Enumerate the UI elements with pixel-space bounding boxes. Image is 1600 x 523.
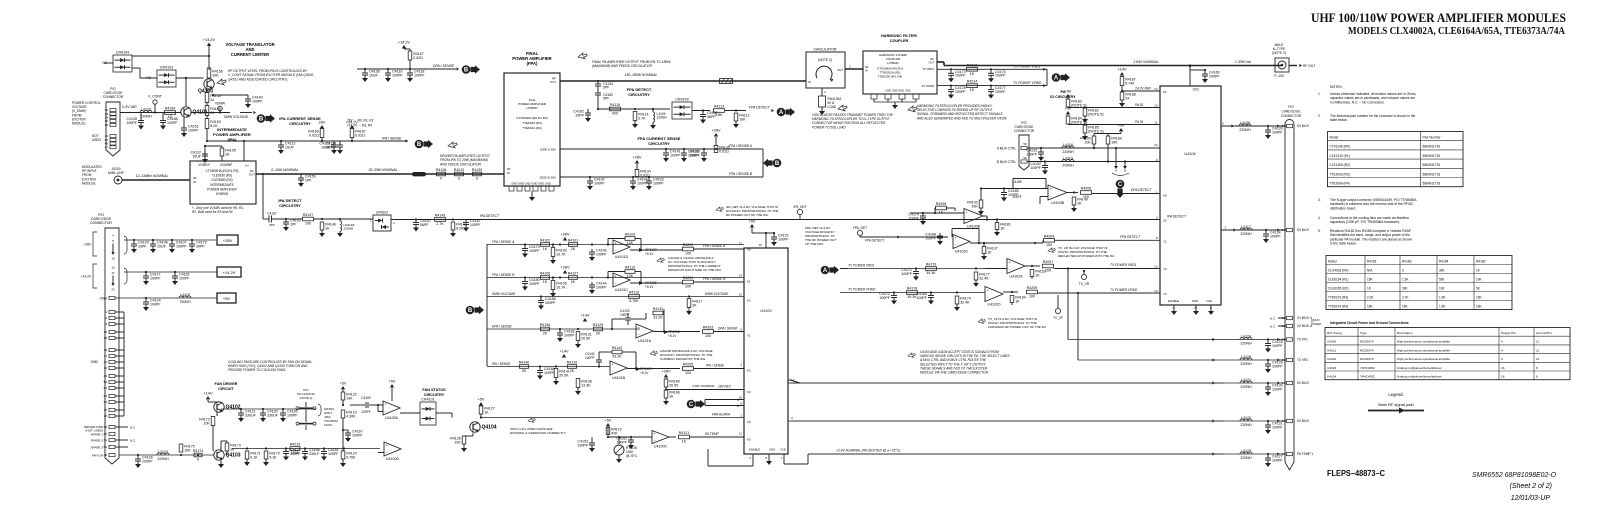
pin 53 X2 MUX	[1282, 324, 1310, 328]
resistor R4113	[714, 105, 725, 118]
inductor L4123	[157, 450, 169, 461]
svg-text:R4154: R4154	[165, 107, 176, 111]
capacitor C4121	[238, 409, 257, 418]
svg-text:GND: GND	[1192, 299, 1198, 303]
RF feedthrough W	[720, 79, 733, 84]
svg-text:VDMW: VDMW	[215, 102, 225, 106]
resistor R4203	[703, 326, 714, 339]
capacitor C4102	[573, 109, 591, 118]
svg-text:0: 0	[440, 177, 442, 181]
op-amp U4102A	[1007, 259, 1025, 279]
svg-text:220NH: 220NH	[1240, 385, 1252, 389]
svg-text:R4130: R4130	[472, 168, 483, 172]
wire row2 fb	[607, 272, 642, 285]
resistor R4189	[1106, 136, 1122, 144]
U4100 pin 1	[740, 414, 742, 418]
wire fan alarm row	[482, 417, 744, 419]
svg-text:2.7K: 2.7K	[1402, 295, 1409, 299]
svg-text:16K: 16K	[1402, 304, 1409, 308]
svg-text:2K: 2K	[570, 369, 575, 373]
svg-text:+14V: +14V	[1118, 68, 1127, 72]
capacitor C4151	[181, 124, 199, 133]
svg-text:390: 390	[1439, 268, 1445, 272]
svg-text:10UF: 10UF	[285, 145, 295, 149]
svg-text:3.88V NOMINAL: 3.88V NOMINAL	[692, 384, 715, 388]
capacitor C4186	[302, 448, 320, 457]
wire vrd1 to u4104	[1054, 263, 1160, 269]
svg-text:Description: Description	[1397, 331, 1413, 335]
wire row4 to pin	[714, 327, 744, 332]
ground	[948, 78, 954, 82]
svg-text:(NOTE 2): (NOTE 2)	[818, 58, 832, 62]
svg-text:capacitors (1000 pF, P/O TRN50: capacitors (1000 pF, P/O TRN5066A hardwa…	[1330, 220, 1400, 224]
capacitor C4107	[169, 240, 187, 249]
svg-text:TX POWER VFWD: TX POWER VFWD	[1110, 288, 1138, 292]
svg-text:0.02Ω: 0.02Ω	[309, 133, 319, 137]
svg-text:R4136: R4136	[540, 323, 551, 327]
svg-text:10K: 10K	[454, 440, 461, 444]
pin 37 PA TEMP 1	[1282, 452, 1314, 456]
wire q4102 vert	[208, 400, 219, 403]
svg-text:56PF: 56PF	[420, 223, 429, 227]
svg-text:TTE2063 (R3): TTE2063 (R3)	[1330, 172, 1350, 176]
pin 75 lower connector	[104, 408, 115, 412]
svg-text:TX POWER VFWD: TX POWER VFWD	[848, 288, 876, 292]
svg-text:100PF: 100PF	[916, 296, 927, 300]
capacitor C4167	[345, 430, 363, 439]
svg-text:U4104: U4104	[1184, 152, 1195, 156]
svg-text:CLE/5080 (R4): CLE/5080 (R4)	[211, 178, 232, 182]
wire CR4104 in	[104, 62, 113, 64]
svg-text:220NH: 220NH	[1062, 164, 1074, 168]
svg-text:CR4100: CR4100	[675, 98, 688, 102]
svg-text:100PF: 100PF	[585, 356, 594, 360]
label FPA I SENSE B row2	[492, 273, 515, 277]
wire CR4104 out	[132, 55, 210, 57]
svg-text:+28V: +28V	[662, 370, 671, 374]
svg-text:K0: K0	[1163, 194, 1167, 198]
power +14V	[1118, 68, 1127, 76]
svg-text:CIRCUITRY: CIRCUITRY	[289, 121, 311, 126]
svg-text:U4103: U4103	[1327, 366, 1336, 370]
resistor R4176	[926, 263, 937, 276]
note U4101D and U4101C produce	[668, 256, 722, 272]
svg-text:R4219: R4219	[290, 443, 301, 447]
wire dpa sense feed	[357, 49, 456, 70]
svg-text:R4200: R4200	[683, 243, 694, 247]
note U4103 and U4104 accept	[919, 350, 1010, 375]
wire IPA detect long wire	[391, 218, 1160, 220]
capacitor C4181	[321, 448, 339, 457]
resistor R4187	[350, 129, 366, 138]
resistor R4158	[205, 106, 221, 116]
node V_CONT	[148, 95, 162, 114]
svg-text:24: 24	[1125, 96, 1129, 100]
svg-text:A: A	[779, 110, 784, 116]
capacitor C4182	[557, 329, 575, 338]
capacitor C4100	[700, 111, 718, 120]
note U4101B produces	[660, 349, 714, 361]
wire side B rail	[560, 164, 763, 178]
ground	[575, 391, 581, 395]
label FPA DETECT arrow	[749, 106, 774, 113]
ground	[589, 257, 595, 261]
wire sense bracket	[762, 149, 764, 177]
capacitor C4153	[577, 440, 595, 449]
svg-text:25: 25	[104, 330, 108, 334]
resistor R4105	[551, 281, 567, 290]
svg-text:100PF: 100PF	[1008, 193, 1019, 197]
ground	[681, 158, 687, 162]
svg-text:100PF: 100PF	[529, 249, 540, 253]
wire row3 start	[487, 295, 744, 297]
ground	[550, 293, 556, 297]
wire r4190	[1093, 134, 1095, 149]
inductor L4118	[1062, 143, 1074, 154]
svg-text:DPA I SENSE: DPA I SENSE	[433, 64, 455, 68]
ground	[978, 211, 984, 215]
svg-text:C: C	[1118, 182, 1123, 188]
svg-text:CIRCUITRY: CIRCUITRY	[424, 393, 445, 397]
svg-text:TLE9190 (R3): TLE9190 (R3)	[212, 174, 232, 178]
svg-text:(NOTE 5): (NOTE 5)	[1088, 112, 1103, 116]
resistor R4213	[967, 63, 978, 76]
U4104 pin 15	[1154, 103, 1158, 107]
svg-text:100PF: 100PF	[1272, 344, 1283, 348]
note circulator passes transmit power	[812, 113, 894, 129]
ground	[238, 418, 244, 422]
ground	[1265, 135, 1271, 139]
resistor R4155	[205, 93, 221, 103]
svg-text:in millihenries. N.C. – No Con: in millihenries. N.C. – No Connection.	[1330, 100, 1385, 104]
svg-text:TTE6324 (R4): TTE6324 (R4)	[522, 126, 542, 130]
label TX POWER VRD1 left	[848, 264, 875, 268]
svg-text:K0: K0	[747, 420, 751, 424]
connector male N-type RF OUT	[1272, 43, 1315, 78]
svg-text:MINI–UHF: MINI–UHF	[108, 171, 124, 175]
svg-text:10.7K: 10.7K	[556, 252, 566, 256]
svg-text:R4106: R4106	[540, 272, 551, 276]
wire enable loop	[708, 449, 753, 466]
svg-text:UHF 100/110W POWER AMPLIFIER M: UHF 100/110W POWER AMPLIFIER MODULES	[1311, 11, 1566, 25]
svg-text:12–13dBm NOMINAL: 12–13dBm NOMINAL	[136, 174, 169, 178]
wire row L4128	[1078, 358, 1286, 361]
svg-text:PA ID: PA ID	[1135, 120, 1144, 124]
pin 52 X1 MUX	[1282, 316, 1310, 320]
svg-text:16: 16	[111, 266, 115, 270]
resistor R4136	[540, 323, 551, 336]
svg-text:1K: 1K	[939, 211, 944, 215]
wire vrd1 in	[985, 268, 1007, 270]
svg-text:1K: 1K	[230, 447, 235, 451]
svg-text:100PF: 100PF	[778, 237, 789, 241]
svg-text:28V RET: 28V RET	[717, 385, 732, 389]
wire spare3 stub	[115, 446, 128, 448]
svg-text:X2 MUX: X2 MUX	[1297, 324, 1310, 328]
wire row L4125	[808, 452, 1286, 455]
svg-text:B: B	[737, 404, 739, 408]
resistor R4180	[664, 379, 680, 387]
svg-text:23: 23	[111, 287, 115, 291]
svg-text:R4147: R4147	[303, 213, 314, 217]
svg-text:MC33074: MC33074	[1360, 340, 1374, 344]
svg-text:B: B	[464, 68, 469, 74]
resistor R4206	[1081, 187, 1092, 200]
coupler ground teeth	[871, 94, 919, 105]
svg-text:100PF: 100PF	[925, 236, 936, 240]
svg-text:+: +	[612, 363, 614, 367]
inductor LR4104	[340, 219, 355, 233]
label +14.2V left	[81, 275, 92, 279]
svg-text:ENABLE: ENABLE	[1168, 299, 1179, 303]
svg-text:74HC4052: 74HC4052	[1360, 375, 1375, 379]
svg-text:100PF: 100PF	[290, 452, 301, 456]
note pointer	[577, 52, 588, 61]
svg-text:100PF: 100PF	[596, 285, 607, 289]
wire q4102 base	[213, 412, 217, 431]
svg-text:U4100B: U4100B	[967, 225, 981, 229]
svg-text:ID CIRCUITRY: ID CIRCUITRY	[1050, 95, 1076, 99]
svg-text:33.2K: 33.2K	[653, 316, 663, 320]
resistor R4170	[264, 451, 280, 459]
svg-text:+: +	[1050, 187, 1052, 191]
section title IPA detect	[278, 198, 302, 208]
svg-text:FPA DETECT: FPA DETECT	[865, 239, 884, 243]
svg-text:REFLECTED RF POWER INTO THE PA: REFLECTED RF POWER INTO THE PA.	[1058, 254, 1115, 258]
ground	[557, 338, 563, 342]
svg-text:A: A	[1115, 169, 1117, 173]
footer drawing number FLEPS-48873-C	[1327, 469, 1385, 478]
svg-text:+28V: +28V	[561, 233, 570, 237]
ground	[891, 301, 897, 305]
svg-text:100PF: 100PF	[287, 413, 298, 417]
svg-text:+5V: +5V	[605, 419, 612, 423]
resistor R4123	[341, 410, 357, 418]
ground	[988, 78, 994, 82]
svg-text:RF: RF	[931, 57, 935, 61]
wire dpa det to U4104	[1092, 193, 1160, 195]
capacitor C4114	[325, 141, 343, 150]
power +14.2V	[398, 41, 411, 49]
capacitor C4131	[1265, 421, 1283, 430]
wire row4 start	[487, 328, 640, 330]
svg-text:High performance operational a: High performance operational amplifier	[1397, 340, 1450, 344]
power +5V	[605, 419, 612, 427]
U4100 pin 9	[740, 402, 742, 406]
wire row4 out	[653, 330, 700, 332]
svg-text:High performance operational a: High performance operational amplifier	[1397, 348, 1450, 352]
svg-text:+: +	[987, 288, 989, 292]
capacitor C4164	[916, 292, 934, 301]
svg-text:Legend:: Legend:	[1388, 392, 1403, 397]
svg-text:B: B	[259, 117, 264, 123]
svg-text:100PF: 100PF	[414, 73, 425, 77]
svg-text:Q4103: Q4103	[226, 453, 241, 459]
power +28V	[561, 233, 570, 241]
wire q4103 collector row	[220, 441, 222, 450]
wire r4177 gnd	[975, 280, 977, 283]
wire r4187 feed	[351, 128, 353, 141]
resistor R4167	[408, 51, 424, 60]
svg-text:5PF: 5PF	[603, 86, 609, 90]
svg-text:16: 16	[1501, 366, 1505, 370]
ground	[337, 150, 343, 154]
node B	[257, 114, 275, 123]
section title fan driver	[215, 382, 238, 391]
wire A mux row	[1027, 147, 1160, 149]
wire fpa det row	[860, 235, 948, 238]
resistor R4139	[567, 361, 578, 374]
svg-text:C: C	[689, 402, 694, 408]
svg-text:table below.: table below.	[1330, 118, 1347, 122]
resistor R4127	[479, 406, 495, 414]
fan sense resistors right	[0, 0, 1, 1]
svg-text:0.02Ω: 0.02Ω	[413, 56, 423, 60]
inductor L4120	[1240, 416, 1252, 427]
ground	[994, 232, 1000, 236]
label 14.2V REF	[1135, 87, 1152, 91]
svg-text:CTX5060A (R0,R1,R2): CTX5060A (R0,R1,R2)	[516, 116, 547, 120]
svg-text:R4101: R4101	[568, 239, 579, 243]
svg-text:39PF: 39PF	[196, 244, 205, 248]
svg-text:L4120: L4120	[141, 107, 151, 111]
resistor R4190	[1080, 136, 1096, 144]
svg-text:1K: 1K	[970, 72, 975, 76]
svg-text:RF POWER OUT OF THE IPA.: RF POWER OUT OF THE IPA.	[726, 213, 769, 217]
ground	[362, 78, 368, 82]
svg-text:U4100: U4100	[1327, 340, 1336, 344]
svg-text:L4121: L4121	[1241, 378, 1251, 382]
svg-text:100PF: 100PF	[361, 410, 370, 414]
wire q4104 emitter	[472, 433, 474, 437]
wire chain	[206, 102, 208, 106]
svg-text:+: +	[966, 210, 968, 214]
svg-text:−: −	[615, 249, 617, 253]
svg-text:PA TEMP: PA TEMP	[705, 432, 720, 436]
svg-text:TX VR1: TX VR1	[1297, 358, 1308, 362]
wire B mux row	[1027, 160, 1160, 162]
ground	[131, 249, 137, 253]
inductor L4119	[1062, 156, 1074, 167]
resistor R4147	[303, 213, 314, 226]
U4104 pin 1	[1156, 190, 1158, 194]
svg-text:100PF: 100PF	[577, 443, 588, 447]
pin 26 lower connector	[104, 336, 115, 340]
pin 45	[105, 138, 116, 142]
wire C4112 lead	[204, 145, 222, 161]
wire row L4124	[1068, 338, 1286, 341]
svg-text:12: 12	[1154, 264, 1158, 268]
svg-text:5884911T30: 5884911T30	[1423, 163, 1441, 167]
svg-text:K3: K3	[747, 438, 751, 442]
wire det row	[597, 108, 670, 110]
pin 49 lower connector	[104, 374, 115, 378]
svg-text:CLE6165 (R2): CLE6165 (R2)	[1328, 286, 1348, 290]
svg-text:R4206: R4206	[1081, 187, 1092, 191]
ground	[1202, 79, 1208, 83]
svg-text:10K: 10K	[1476, 277, 1483, 281]
svg-text:50: 50	[104, 380, 108, 384]
svg-text:30–35W NOMINAL: 30–35W NOMINAL	[368, 168, 397, 172]
svg-text:+14V: +14V	[581, 314, 590, 318]
capacitor C4188	[160, 113, 178, 126]
ground	[135, 464, 141, 468]
note 5	[1318, 229, 1412, 246]
wire chain2	[206, 115, 208, 119]
svg-text:B MUX CTRL: B MUX CTRL	[997, 160, 1017, 164]
ground	[1265, 463, 1271, 467]
svg-text:PA TEMP 1: PA TEMP 1	[1297, 452, 1313, 456]
wire vrd1 drop	[1067, 267, 1069, 339]
thermistor RT4100	[614, 437, 638, 459]
pin 32	[105, 108, 116, 112]
svg-text:+14.2V: +14.2V	[203, 38, 216, 42]
wire r4126 gnd	[464, 436, 473, 448]
ground	[1038, 157, 1044, 161]
pin 41 lower connector	[104, 354, 115, 358]
svg-text:100PF: 100PF	[596, 252, 607, 256]
node C	[687, 400, 705, 409]
svg-text:CURRENT DRAWN BY THE IPA.: CURRENT DRAWN BY THE IPA.	[660, 357, 706, 361]
svg-text:FPA I SENSE A: FPA I SENSE A	[492, 240, 514, 244]
svg-text:220NH: 220NH	[1240, 362, 1252, 366]
section title PA ID circuitry	[1050, 90, 1076, 99]
ground	[1193, 311, 1199, 315]
wire temp row	[608, 436, 652, 438]
capacitor C4140	[245, 95, 263, 104]
svg-text:2K: 2K	[543, 332, 548, 336]
svg-text:2K: 2K	[522, 369, 527, 373]
svg-text:CARD EDGE: CARD EDGE	[1282, 110, 1301, 114]
capacitor C4142	[587, 177, 605, 186]
note cooling fans controlled	[228, 360, 313, 372]
wire r4122 link	[342, 390, 344, 406]
svg-text:+28V: +28V	[223, 238, 233, 243]
svg-text:1K: 1K	[1015, 299, 1020, 303]
transistor Q4101	[181, 107, 208, 117]
svg-text:13.3K: 13.3K	[581, 383, 591, 387]
svg-text:100: 100	[705, 334, 711, 338]
resistor R4007	[1043, 260, 1054, 273]
node A	[821, 266, 839, 275]
capacitor C4110	[689, 149, 707, 158]
svg-text:TX POWER VRD1: TX POWER VRD1	[1110, 263, 1137, 267]
node TX_VF	[1012, 295, 1063, 320]
ground	[181, 133, 187, 137]
svg-text:11: 11	[1154, 120, 1157, 124]
wire r4117 gnd	[688, 295, 690, 311]
svg-text:100PF: 100PF	[616, 440, 627, 444]
svg-text:220NH: 220NH	[1240, 342, 1252, 346]
ground	[1042, 171, 1048, 175]
label +2.4V nominal	[836, 449, 900, 453]
svg-text:SIDE A 28V: SIDE A 28V	[540, 148, 557, 152]
resistor R4186	[664, 390, 680, 398]
pin 2 lower connector	[105, 316, 115, 320]
ground	[345, 438, 351, 442]
pin 1 lower connector	[105, 310, 115, 314]
svg-text:CONNECTOR: CONNECTOR	[90, 221, 112, 225]
svg-text:1K: 1K	[484, 410, 489, 414]
svg-text:100PF: 100PF	[955, 74, 966, 78]
svg-text:16: 16	[759, 243, 763, 247]
svg-text:4: 4	[1501, 357, 1503, 361]
svg-text:+5V: +5V	[340, 382, 347, 386]
svg-text:R4139: R4139	[567, 361, 578, 365]
ground	[663, 401, 669, 405]
resistor R4105	[220, 148, 236, 156]
pin 34	[105, 116, 116, 120]
